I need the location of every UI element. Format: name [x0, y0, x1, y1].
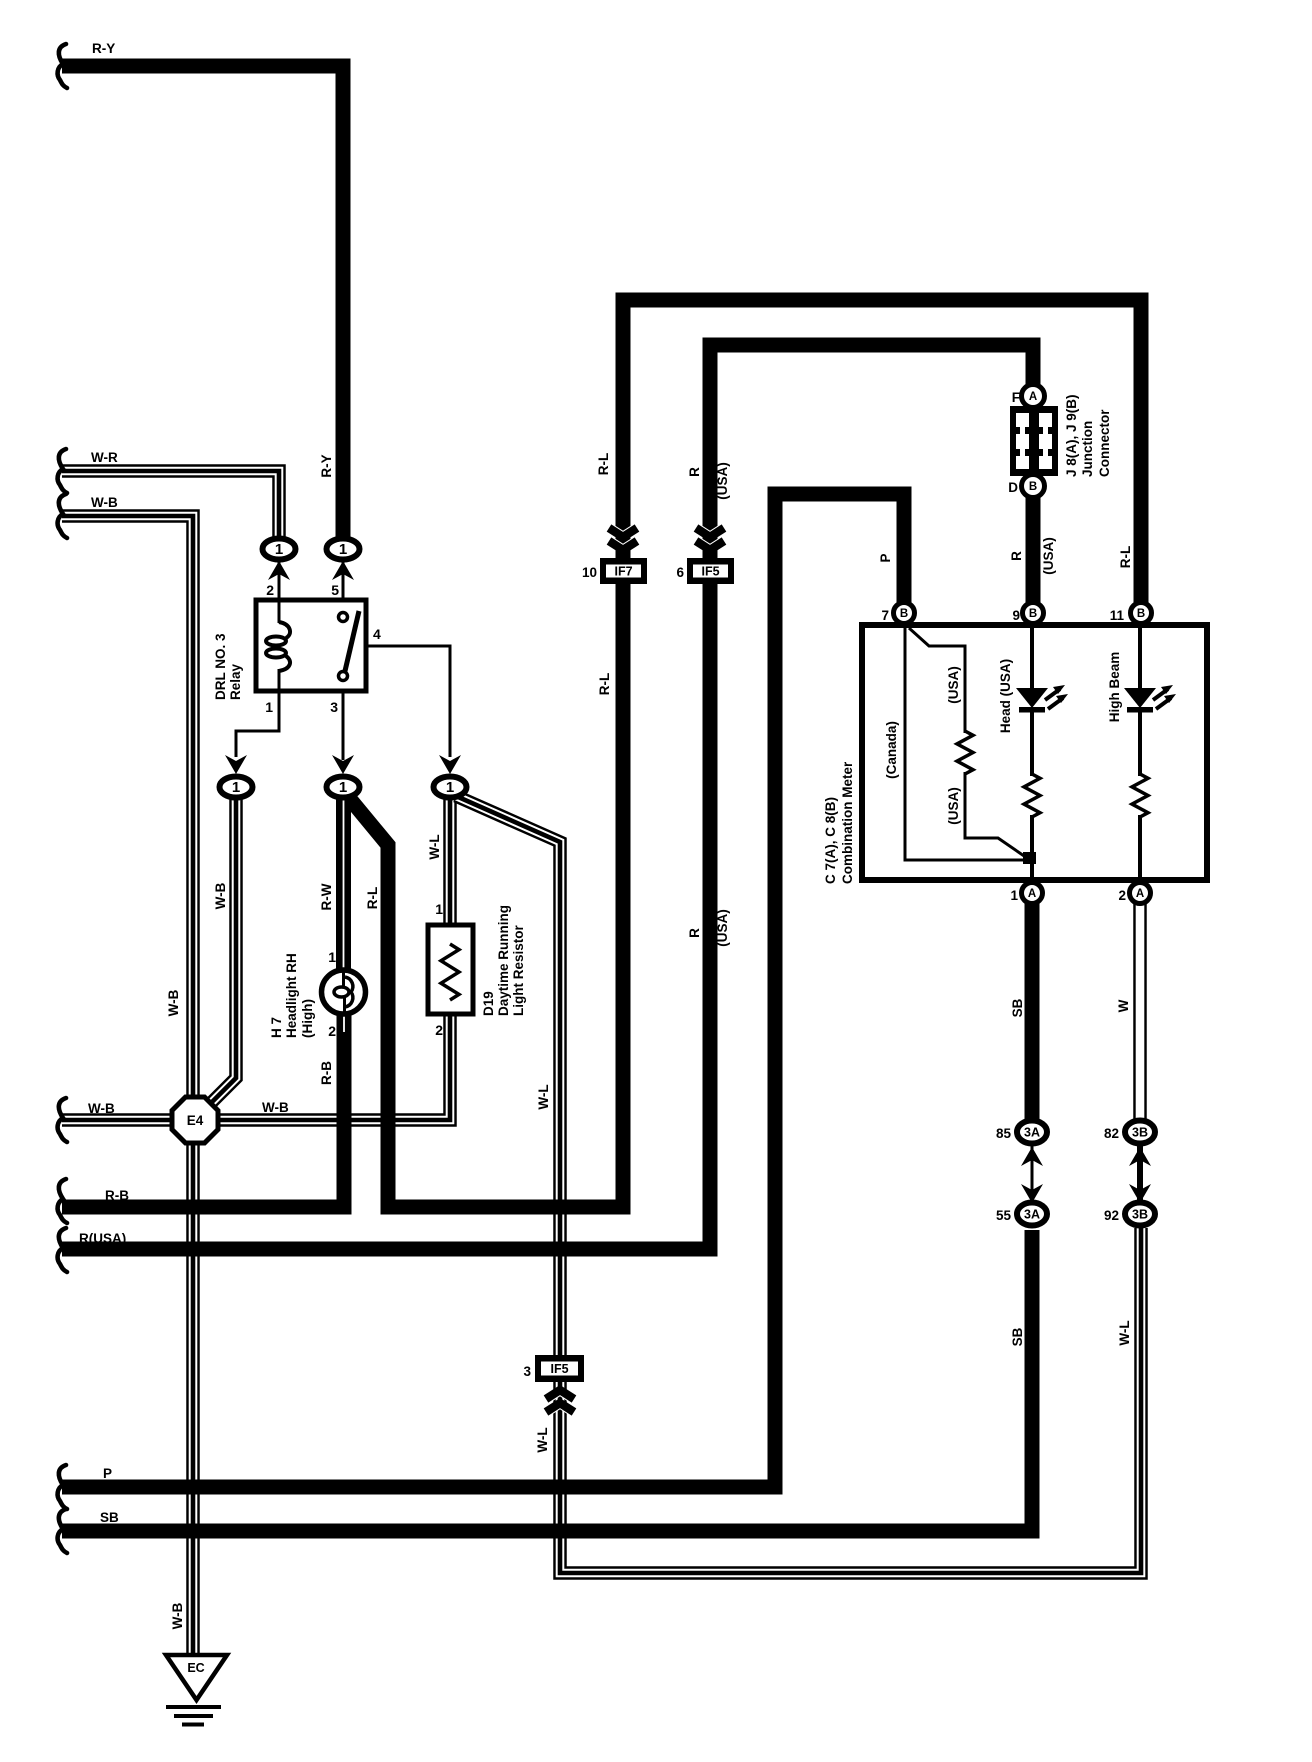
svg-text:3: 3	[330, 699, 338, 715]
svg-text:R-Y: R-Y	[319, 454, 334, 477]
svg-text:R-B: R-B	[105, 1188, 129, 1203]
svg-text:5: 5	[331, 582, 339, 598]
svg-text:1: 1	[339, 541, 347, 558]
svg-text:55: 55	[996, 1208, 1012, 1223]
svg-text:B: B	[1029, 481, 1037, 493]
svg-text:Head (USA): Head (USA)	[998, 659, 1013, 733]
svg-text:R-B: R-B	[319, 1061, 334, 1085]
svg-text:E4: E4	[187, 1113, 204, 1128]
svg-text:R: R	[1009, 551, 1024, 561]
svg-text:W-B: W-B	[170, 1602, 185, 1629]
svg-text:(USA): (USA)	[1041, 537, 1056, 575]
svg-text:W: W	[1116, 999, 1131, 1012]
svg-text:J 8(A), J 9(B): J 8(A), J 9(B)	[1064, 394, 1079, 477]
svg-text:W-B: W-B	[166, 989, 181, 1016]
svg-text:3: 3	[523, 1364, 531, 1379]
svg-text:3B: 3B	[1132, 1126, 1148, 1140]
svg-text:R-Y: R-Y	[92, 41, 115, 56]
svg-text:W-L: W-L	[427, 834, 442, 859]
svg-text:(USA): (USA)	[715, 909, 730, 947]
svg-text:IF5: IF5	[550, 1362, 568, 1376]
svg-text:A: A	[1028, 888, 1036, 900]
svg-text:(Canada): (Canada)	[884, 721, 899, 779]
svg-text:SB: SB	[1010, 1327, 1025, 1346]
svg-text:3A: 3A	[1024, 1126, 1040, 1140]
svg-text:D19: D19	[481, 991, 496, 1016]
svg-text:R-W: R-W	[319, 883, 334, 910]
svg-text:85: 85	[996, 1126, 1012, 1141]
svg-text:11: 11	[1110, 608, 1125, 623]
svg-text:1: 1	[435, 901, 443, 917]
svg-text:1: 1	[275, 541, 283, 558]
svg-text:Light Resistor: Light Resistor	[511, 924, 526, 1016]
svg-text:1: 1	[265, 699, 273, 715]
svg-text:SB: SB	[1010, 998, 1025, 1017]
svg-text:1: 1	[339, 779, 347, 796]
svg-text:R-L: R-L	[596, 453, 611, 476]
svg-text:C 7(A), C 8(B): C 7(A), C 8(B)	[823, 797, 838, 884]
svg-text:R: R	[687, 928, 702, 938]
svg-text:IF5: IF5	[701, 565, 719, 579]
svg-text:3A: 3A	[1024, 1208, 1040, 1222]
svg-text:High Beam: High Beam	[1107, 652, 1122, 723]
svg-text:B: B	[900, 608, 908, 620]
svg-text:2: 2	[435, 1022, 443, 1038]
svg-text:82: 82	[1104, 1126, 1119, 1141]
svg-text:Relay: Relay	[228, 663, 243, 700]
svg-text:9: 9	[1012, 608, 1020, 623]
svg-text:R-L: R-L	[365, 887, 380, 910]
svg-text:2: 2	[266, 582, 274, 598]
svg-text:W-L: W-L	[1117, 1320, 1132, 1345]
svg-text:D: D	[1008, 480, 1018, 495]
svg-text:4: 4	[373, 626, 381, 642]
svg-text:W-R: W-R	[91, 450, 118, 465]
svg-text:B: B	[1137, 608, 1145, 620]
svg-text:Junction: Junction	[1080, 421, 1095, 477]
svg-text:1: 1	[1010, 888, 1018, 903]
svg-text:3B: 3B	[1132, 1208, 1148, 1222]
svg-text:6: 6	[676, 565, 684, 580]
svg-text:2: 2	[328, 1023, 336, 1039]
svg-text:1: 1	[232, 779, 240, 796]
svg-text:R: R	[687, 467, 702, 477]
svg-text:Daytime Running: Daytime Running	[496, 905, 511, 1016]
svg-text:W-B: W-B	[262, 1100, 289, 1115]
svg-text:R-L: R-L	[1118, 546, 1133, 569]
svg-text:W-B: W-B	[88, 1101, 115, 1116]
svg-text:2: 2	[1118, 888, 1126, 903]
svg-text:Connector: Connector	[1097, 409, 1112, 477]
svg-text:IF7: IF7	[614, 565, 632, 579]
svg-text:A: A	[1029, 391, 1037, 403]
svg-text:Combination Meter: Combination Meter	[840, 761, 855, 884]
svg-text:Headlight RH: Headlight RH	[284, 953, 299, 1038]
svg-text:1: 1	[328, 949, 336, 965]
svg-text:SB: SB	[100, 1510, 119, 1525]
svg-text:P: P	[878, 553, 893, 562]
svg-text:1: 1	[446, 779, 454, 796]
svg-text:(High): (High)	[300, 999, 315, 1038]
svg-text:(USA): (USA)	[946, 666, 961, 704]
svg-text:DRL NO. 3: DRL NO. 3	[213, 633, 228, 700]
svg-text:7: 7	[881, 608, 889, 623]
svg-text:A: A	[1136, 888, 1144, 900]
svg-text:EC: EC	[187, 1661, 204, 1675]
svg-text:R-L: R-L	[597, 673, 612, 696]
svg-text:10: 10	[582, 565, 597, 580]
svg-text:(USA): (USA)	[946, 787, 961, 825]
svg-text:B: B	[1029, 608, 1037, 620]
svg-text:H 7: H 7	[269, 1017, 284, 1038]
svg-text:R(USA): R(USA)	[79, 1231, 126, 1246]
svg-text:W-B: W-B	[213, 882, 228, 909]
svg-text:(USA): (USA)	[715, 462, 730, 500]
svg-text:F: F	[1012, 390, 1020, 405]
svg-text:92: 92	[1104, 1208, 1119, 1223]
svg-text:W-L: W-L	[535, 1427, 550, 1452]
svg-text:W-L: W-L	[536, 1084, 551, 1109]
svg-text:P: P	[103, 1466, 112, 1481]
svg-text:W-B: W-B	[91, 495, 118, 510]
